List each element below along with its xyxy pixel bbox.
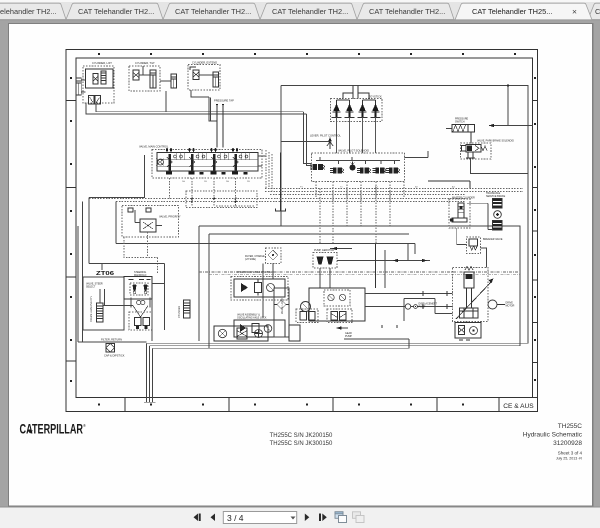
long pilot lines from cylinders to pilot area	[86, 103, 307, 114]
steering sub valves	[103, 289, 153, 341]
zone tick dots top margin	[98, 53, 516, 55]
gauge arrow right side	[489, 86, 533, 128]
caterpillar logo	[20, 422, 87, 437]
bus junction dots	[191, 198, 237, 203]
variable arrow	[456, 281, 492, 319]
interconnect rails	[316, 157, 400, 164]
zone dots left margin	[70, 77, 72, 382]
axle lock manifold	[234, 314, 285, 338]
zone divider ticks bottom	[125, 398, 437, 412]
svg-text:3 / 4: 3 / 4	[227, 513, 244, 523]
drive motor group	[453, 267, 515, 322]
logic riser	[274, 288, 289, 337]
svg-text:STEERING/CHARGE MANIFOLD: STEERING/CHARGE MANIFOLD	[237, 271, 273, 274]
big rect A (pilot supply enclosure)	[281, 86, 528, 344]
svg-text:BREAKER VALVE: BREAKER VALVE	[483, 238, 503, 241]
svg-text:CAT Telehandler TH25...: CAT Telehandler TH25...	[472, 7, 552, 16]
svg-text:SERVICE BRAKE: SERVICE BRAKE	[486, 195, 506, 198]
big rect B outer	[199, 226, 520, 346]
svg-text:®: ®	[83, 423, 86, 428]
CE & AUS box	[499, 398, 538, 412]
dashed drops below main valve	[170, 178, 258, 208]
svg-text:SWITCH: SWITCH	[455, 121, 465, 124]
port tick marks	[166, 148, 238, 151]
svg-text:CATERPILLAR: CATERPILLAR	[20, 422, 84, 437]
window icon 1	[335, 512, 347, 523]
drops to bus	[316, 182, 404, 244]
pressure tap arrows and drops	[214, 99, 234, 148]
pilot solenoid valve group	[310, 149, 405, 244]
svg-text:TH255C S/N JK300150: TH255C S/N JK300150	[270, 441, 333, 447]
spools	[168, 154, 237, 171]
lone cylinder right of tilt	[160, 74, 177, 112]
return trunk bundle bottom left	[147, 343, 153, 402]
cylinder group TILT	[129, 61, 160, 91]
svg-text:TH255C: TH255C	[558, 423, 583, 430]
svg-text:MOTOR: MOTOR	[506, 305, 515, 308]
bus port labels	[182, 180, 455, 189]
svg-text:CAT Telehandler TH2...: CAT Telehandler TH2...	[272, 7, 348, 16]
frame leveling cylinder 2	[178, 300, 190, 318]
svg-text:PUMP: PUMP	[345, 335, 352, 338]
svg-text:PUMP, GEROTOR: PUMP, GEROTOR	[314, 249, 334, 252]
svg-text:CYLINDER, TILT: CYLINDER, TILT	[135, 61, 155, 65]
hydraulic return line	[78, 226, 147, 342]
svg-text:CAT Telehandler TH2...: CAT Telehandler TH2...	[369, 7, 445, 16]
zone dots right margin	[534, 77, 536, 381]
joystick glyphs	[333, 104, 379, 118]
svg-text:CYLINDER: CYLINDER	[178, 306, 181, 318]
svg-text:CYLINDER, EXTEND: CYLINDER, EXTEND	[192, 61, 217, 65]
flow arrows mid	[320, 244, 430, 289]
park brake solenoid valve	[428, 140, 528, 189]
svg-text:×: ×	[572, 7, 577, 17]
zone tick dots bottom margin	[98, 403, 464, 405]
priority valve group	[122, 206, 181, 238]
prev-doc button	[194, 514, 199, 522]
right end wires	[258, 156, 266, 166]
bottom toolbar	[0, 507, 600, 528]
svg-text:VALVE, MAIN CONTROL: VALVE, MAIN CONTROL	[139, 145, 169, 149]
charge filter	[245, 248, 281, 318]
tank line + reservoir symbol	[275, 153, 286, 212]
drawing frame outer	[66, 50, 538, 412]
svg-text:TH255C S/N JK200150: TH255C S/N JK200150	[270, 433, 333, 439]
prev page	[211, 514, 216, 522]
svg-text:OSCILLATING AXLE LOCK: OSCILLATING AXLE LOCK	[237, 317, 267, 320]
svg-text:Sheet 3 of 4: Sheet 3 of 4	[558, 451, 583, 456]
page field	[223, 512, 296, 524]
solenoid valve glyphs	[310, 162, 400, 174]
port circles	[174, 155, 248, 158]
priority feed wires	[83, 155, 145, 342]
big rect B inner	[209, 234, 409, 348]
gear pump label	[337, 325, 410, 339]
line under tabbar	[0, 20, 600, 21]
svg-text:CYLINDER, LIFT: CYLINDER, LIFT	[92, 61, 112, 65]
frame leveling cylinder 1	[90, 289, 103, 322]
svg-text:Hydraulic Schematic: Hydraulic Schematic	[523, 432, 583, 439]
steering valve block	[124, 271, 152, 299]
inlet circle	[158, 159, 164, 165]
dash-dot pump bus	[199, 272, 520, 275]
motor bottom cluster	[455, 323, 481, 341]
top stubs	[167, 148, 237, 153]
gerotor assembly	[313, 249, 337, 268]
small flow arrow above pump	[330, 247, 352, 250]
svg-text:elehandler TH2...: elehandler TH2...	[0, 7, 57, 16]
inactive tabs	[0, 3, 600, 19]
svg-text:JOYSTICK: JOYSTICK	[369, 95, 382, 99]
svg-text:31200928: 31200928	[553, 440, 582, 447]
drawing frame inner	[76, 58, 533, 398]
dashed pilot bus lines	[89, 150, 523, 206]
svg-text:CA: CA	[595, 7, 600, 16]
valve glyphs inside	[93, 74, 98, 85]
return filter	[101, 338, 125, 358]
active tab	[455, 3, 592, 20]
motor circle	[488, 300, 497, 309]
svg-text:July 25, 2013 -R: July 25, 2013 -R	[556, 457, 583, 461]
svg-text:CAP & DIPSTICK: CAP & DIPSTICK	[104, 354, 125, 358]
transmission lines to motor	[365, 291, 453, 321]
steering group enclosure	[83, 277, 124, 330]
cylinder group EXTEND	[188, 61, 220, 91]
inline pump circles	[405, 304, 410, 309]
svg-text:SELECT: SELECT	[86, 286, 96, 289]
window icon 2 (disabled)	[353, 512, 365, 523]
svg-text:PRESSURE TAP: PRESSURE TAP	[214, 99, 234, 103]
svg-text:FRAME LEVELING CYL: FRAME LEVELING CYL	[90, 295, 93, 322]
svg-text:VALVE, PARK BRAKE SOLENOID: VALVE, PARK BRAKE SOLENOID	[477, 140, 514, 143]
steering feed wires	[89, 264, 165, 331]
lever pilot control	[281, 134, 341, 150]
next page	[305, 514, 310, 522]
joystick feed brackets	[337, 93, 376, 104]
left pump circle	[301, 302, 311, 312]
steering/charge manifold	[231, 271, 288, 300]
extend group drops	[191, 90, 217, 121]
breaker valve	[467, 237, 503, 268]
master cylinder group	[449, 197, 488, 245]
joystick group	[331, 86, 383, 154]
hydrostatic pump block	[296, 288, 365, 323]
cylinder group LIFT (top-left)	[76, 61, 114, 104]
next-doc button	[319, 514, 321, 522]
lift cylinder at frame edge	[76, 78, 81, 95]
port striping texture	[176, 153, 250, 160]
svg-text:PUMP: PUMP	[419, 306, 426, 309]
svg-text:(LH SIDE): (LH SIDE)	[245, 258, 256, 261]
brake valve cluster bottom center	[214, 325, 300, 341]
svg-text:CE & AUS: CE & AUS	[503, 403, 534, 410]
tab bar background	[0, 0, 600, 20]
bottom texts	[20, 422, 583, 461]
svg-text:CAT Telehandler TH2...: CAT Telehandler TH2...	[175, 7, 251, 16]
svg-text:ZT06: ZT06	[96, 271, 114, 277]
svg-text:LEVER, PILOT CONTROL: LEVER, PILOT CONTROL	[310, 134, 341, 138]
svg-text:FILTER, RETURN: FILTER, RETURN	[101, 338, 122, 342]
svg-text:VALVE, PRIORITY: VALVE, PRIORITY	[159, 215, 181, 219]
black pads	[166, 172, 248, 175]
main control valve bank	[139, 145, 266, 179]
pressure switch park brake	[446, 118, 475, 144]
transaxle service brake block	[486, 192, 506, 230]
lower sub boxes	[296, 309, 318, 323]
inner horizontal rails y=239.5 / 243.5	[116, 244, 415, 254]
pilot box right stub	[405, 151, 429, 158]
zone divider ticks left/right margins	[66, 101, 538, 363]
svg-text:CAT Telehandler TH2...: CAT Telehandler TH2...	[78, 7, 154, 16]
pilot supply junction dot	[507, 84, 509, 86]
svg-text:VALVE, PILOT SOLENOID: VALVE, PILOT SOLENOID	[338, 149, 369, 153]
